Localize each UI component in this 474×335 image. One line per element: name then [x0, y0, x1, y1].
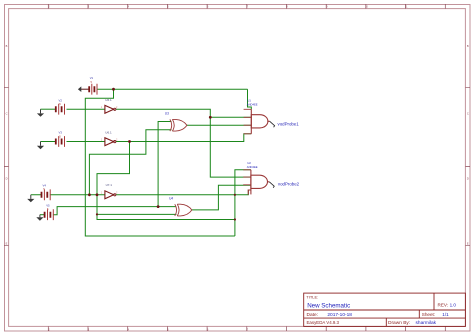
probe vodProbe2 — [269, 181, 299, 187]
wire V3 to inverter U6.2 input — [67, 141, 105, 143]
svg-text:vodProbe2: vodProbe2 — [278, 181, 300, 186]
wire inverter U6.2 output row — [116, 134, 252, 142]
wire V1 branch down — [85, 89, 235, 236]
svg-text:Drawn By:: Drawn By: — [388, 320, 410, 326]
wire V4 row to inverter U7.1 — [31, 194, 105, 196]
svg-text:V2: V2 — [59, 98, 63, 102]
node U4 bottom branch — [96, 213, 98, 215]
wire inverter U7.1 output — [116, 190, 251, 195]
svg-text:vodProbe1: vodProbe1 — [278, 121, 300, 126]
svg-text:D: D — [6, 177, 8, 181]
wire V1 row to U1 pin1 — [97, 88, 248, 90]
svg-text:E: E — [467, 242, 469, 246]
svg-text:AND4EE: AND4EE — [247, 103, 258, 107]
node V4 branch a — [88, 193, 91, 196]
wire U2 pin1 riser — [235, 170, 251, 236]
xor gate U4 — [175, 204, 192, 216]
wire XOR U3 output to U1 pin3 — [187, 124, 251, 126]
wire V5 ground stub — [40, 214, 45, 216]
wire U1 pin1 drop — [248, 89, 252, 109]
svg-text:EasyEDA V4.9.3: EasyEDA V4.9.3 — [307, 320, 340, 325]
node inv1 out branch — [209, 116, 212, 119]
ground for V2 (arrow down) — [37, 109, 44, 117]
inverter U6.1 — [101, 98, 118, 113]
wire U4 output to U2 pin3 — [192, 185, 251, 210]
battery V4 — [42, 184, 51, 201]
wire V2 ground stub — [41, 108, 57, 110]
svg-text:C: C — [467, 112, 469, 116]
and gate U2 (AND4E) — [243, 170, 269, 195]
battery V1 — [81, 76, 97, 95]
node V1 branch — [112, 88, 115, 91]
svg-text:2017-10-18: 2017-10-18 — [327, 312, 352, 318]
svg-text:D: D — [467, 177, 469, 181]
ground for V4 (arrow down) — [27, 195, 34, 203]
battery V3 — [56, 131, 65, 147]
svg-text:V5: V5 — [46, 204, 50, 208]
ground for V5 (arrow down) — [36, 215, 43, 221]
wire V2 to inverter U6.1 input — [67, 108, 105, 110]
svg-text:Sheet:: Sheet: — [422, 312, 435, 317]
svg-text:U6.1: U6.1 — [105, 98, 112, 102]
wire U3 top input riser — [158, 122, 171, 207]
node V4 branch b — [96, 193, 99, 196]
ground for V3 (arrow down) — [37, 142, 44, 150]
svg-text:1/1: 1/1 — [442, 312, 449, 317]
svg-text:U2: U2 — [247, 161, 251, 165]
junction dots — [88, 88, 236, 221]
svg-text:C: C — [6, 112, 8, 116]
battery V2 — [56, 98, 65, 114]
svg-text:TITLE:: TITLE: — [306, 294, 318, 299]
svg-text:AND4EE: AND4EE — [247, 165, 258, 169]
svg-text:U3: U3 — [165, 112, 169, 116]
svg-text:V1: V1 — [90, 76, 94, 80]
svg-text:B: B — [467, 44, 469, 48]
wire U4 bottom input — [97, 213, 176, 215]
node inv3 out tee — [234, 194, 236, 196]
probe vodProbe1 — [270, 121, 300, 127]
svg-text:REV:: REV: — [438, 303, 449, 308]
svg-text:U1: U1 — [247, 99, 251, 103]
svg-text:sharmilak: sharmilak — [416, 320, 437, 326]
svg-text:V4: V4 — [43, 184, 47, 188]
svg-text:B: B — [6, 44, 8, 48]
svg-text:U4: U4 — [169, 197, 173, 201]
node inv2 out branch — [128, 140, 131, 143]
xor gate U3 — [170, 119, 187, 131]
wire V5 jog up — [53, 207, 176, 215]
and gate U1 (AND4E) — [244, 109, 270, 134]
inverter U7.1 — [101, 183, 118, 199]
wire U3 bottom input loop — [89, 130, 171, 195]
svg-text:1.0: 1.0 — [450, 303, 457, 308]
node V5 branch — [157, 205, 160, 208]
node pin4 row tee — [234, 218, 236, 220]
svg-text:U6.1: U6.1 — [105, 130, 112, 134]
svg-text:E: E — [6, 242, 8, 246]
wire V3 ground stub — [41, 141, 57, 143]
wire U1 pin2 — [210, 116, 251, 118]
svg-text:U7.1: U7.1 — [106, 183, 113, 187]
wire inverter U6.1 output — [116, 109, 251, 177]
ground for V1 (arrow left) — [78, 86, 81, 92]
inverter U6.2 — [101, 130, 118, 145]
battery V5 — [45, 204, 54, 221]
svg-text:New Schematic: New Schematic — [307, 303, 350, 310]
svg-text:V3: V3 — [59, 131, 63, 135]
wire U6.2 output down branch — [97, 142, 235, 220]
svg-text:Date:: Date: — [307, 312, 318, 318]
